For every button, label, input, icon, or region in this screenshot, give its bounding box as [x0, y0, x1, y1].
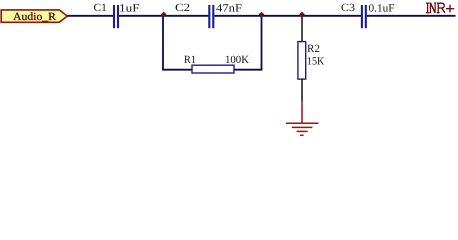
wire right leg of R1 loop [234, 16, 262, 70]
svg-text:100K: 100K [225, 54, 249, 66]
INR+ glyph I [426, 3, 429, 13]
resistor R2 [298, 42, 306, 80]
INR+ glyph N [430, 3, 436, 13]
svg-text:Audio_R: Audio_R [13, 11, 57, 23]
INR+ glyph R [437, 3, 440, 13]
svg-text:47nF: 47nF [216, 3, 242, 15]
wire C1 to C2 [119, 15, 208, 17]
wire port to C1 [67, 15, 113, 17]
capacitor C1 [114, 5, 118, 28]
svg-text:C2: C2 [175, 2, 190, 14]
INR+ glyph plus [446, 5, 454, 13]
wire C3 to INR+ [367, 15, 456, 17]
junction node at R2 [299, 12, 305, 18]
svg-text:R1: R1 [184, 54, 196, 66]
capacitor C3 [362, 5, 366, 28]
wire C2 to C3 [214, 15, 361, 17]
svg-text:C1: C1 [94, 2, 107, 14]
svg-text:R2: R2 [307, 43, 320, 55]
svg-text:0.1uF: 0.1uF [369, 3, 395, 15]
resistor R1 [192, 65, 234, 73]
junction node after C2 / R1 top [259, 12, 265, 18]
ground bar 3 [297, 130, 308, 132]
ground bar 4 [300, 134, 304, 136]
svg-text:1uF: 1uF [119, 3, 140, 15]
svg-text:C3: C3 [341, 2, 356, 14]
junction node after C1 [161, 12, 167, 18]
pin R2 top (black) [301, 17, 303, 42]
net label INR+ [426, 3, 454, 13]
ground bar 1 [286, 122, 318, 124]
ground bar 2 [292, 126, 313, 128]
capacitor C2 [209, 5, 213, 28]
port Audio_R [1, 10, 67, 22]
pin R2 bottom (black) [301, 79, 303, 101]
ground stem [301, 101, 303, 123]
svg-text:15K: 15K [307, 56, 324, 68]
wire left leg of R1 loop [163, 16, 192, 70]
